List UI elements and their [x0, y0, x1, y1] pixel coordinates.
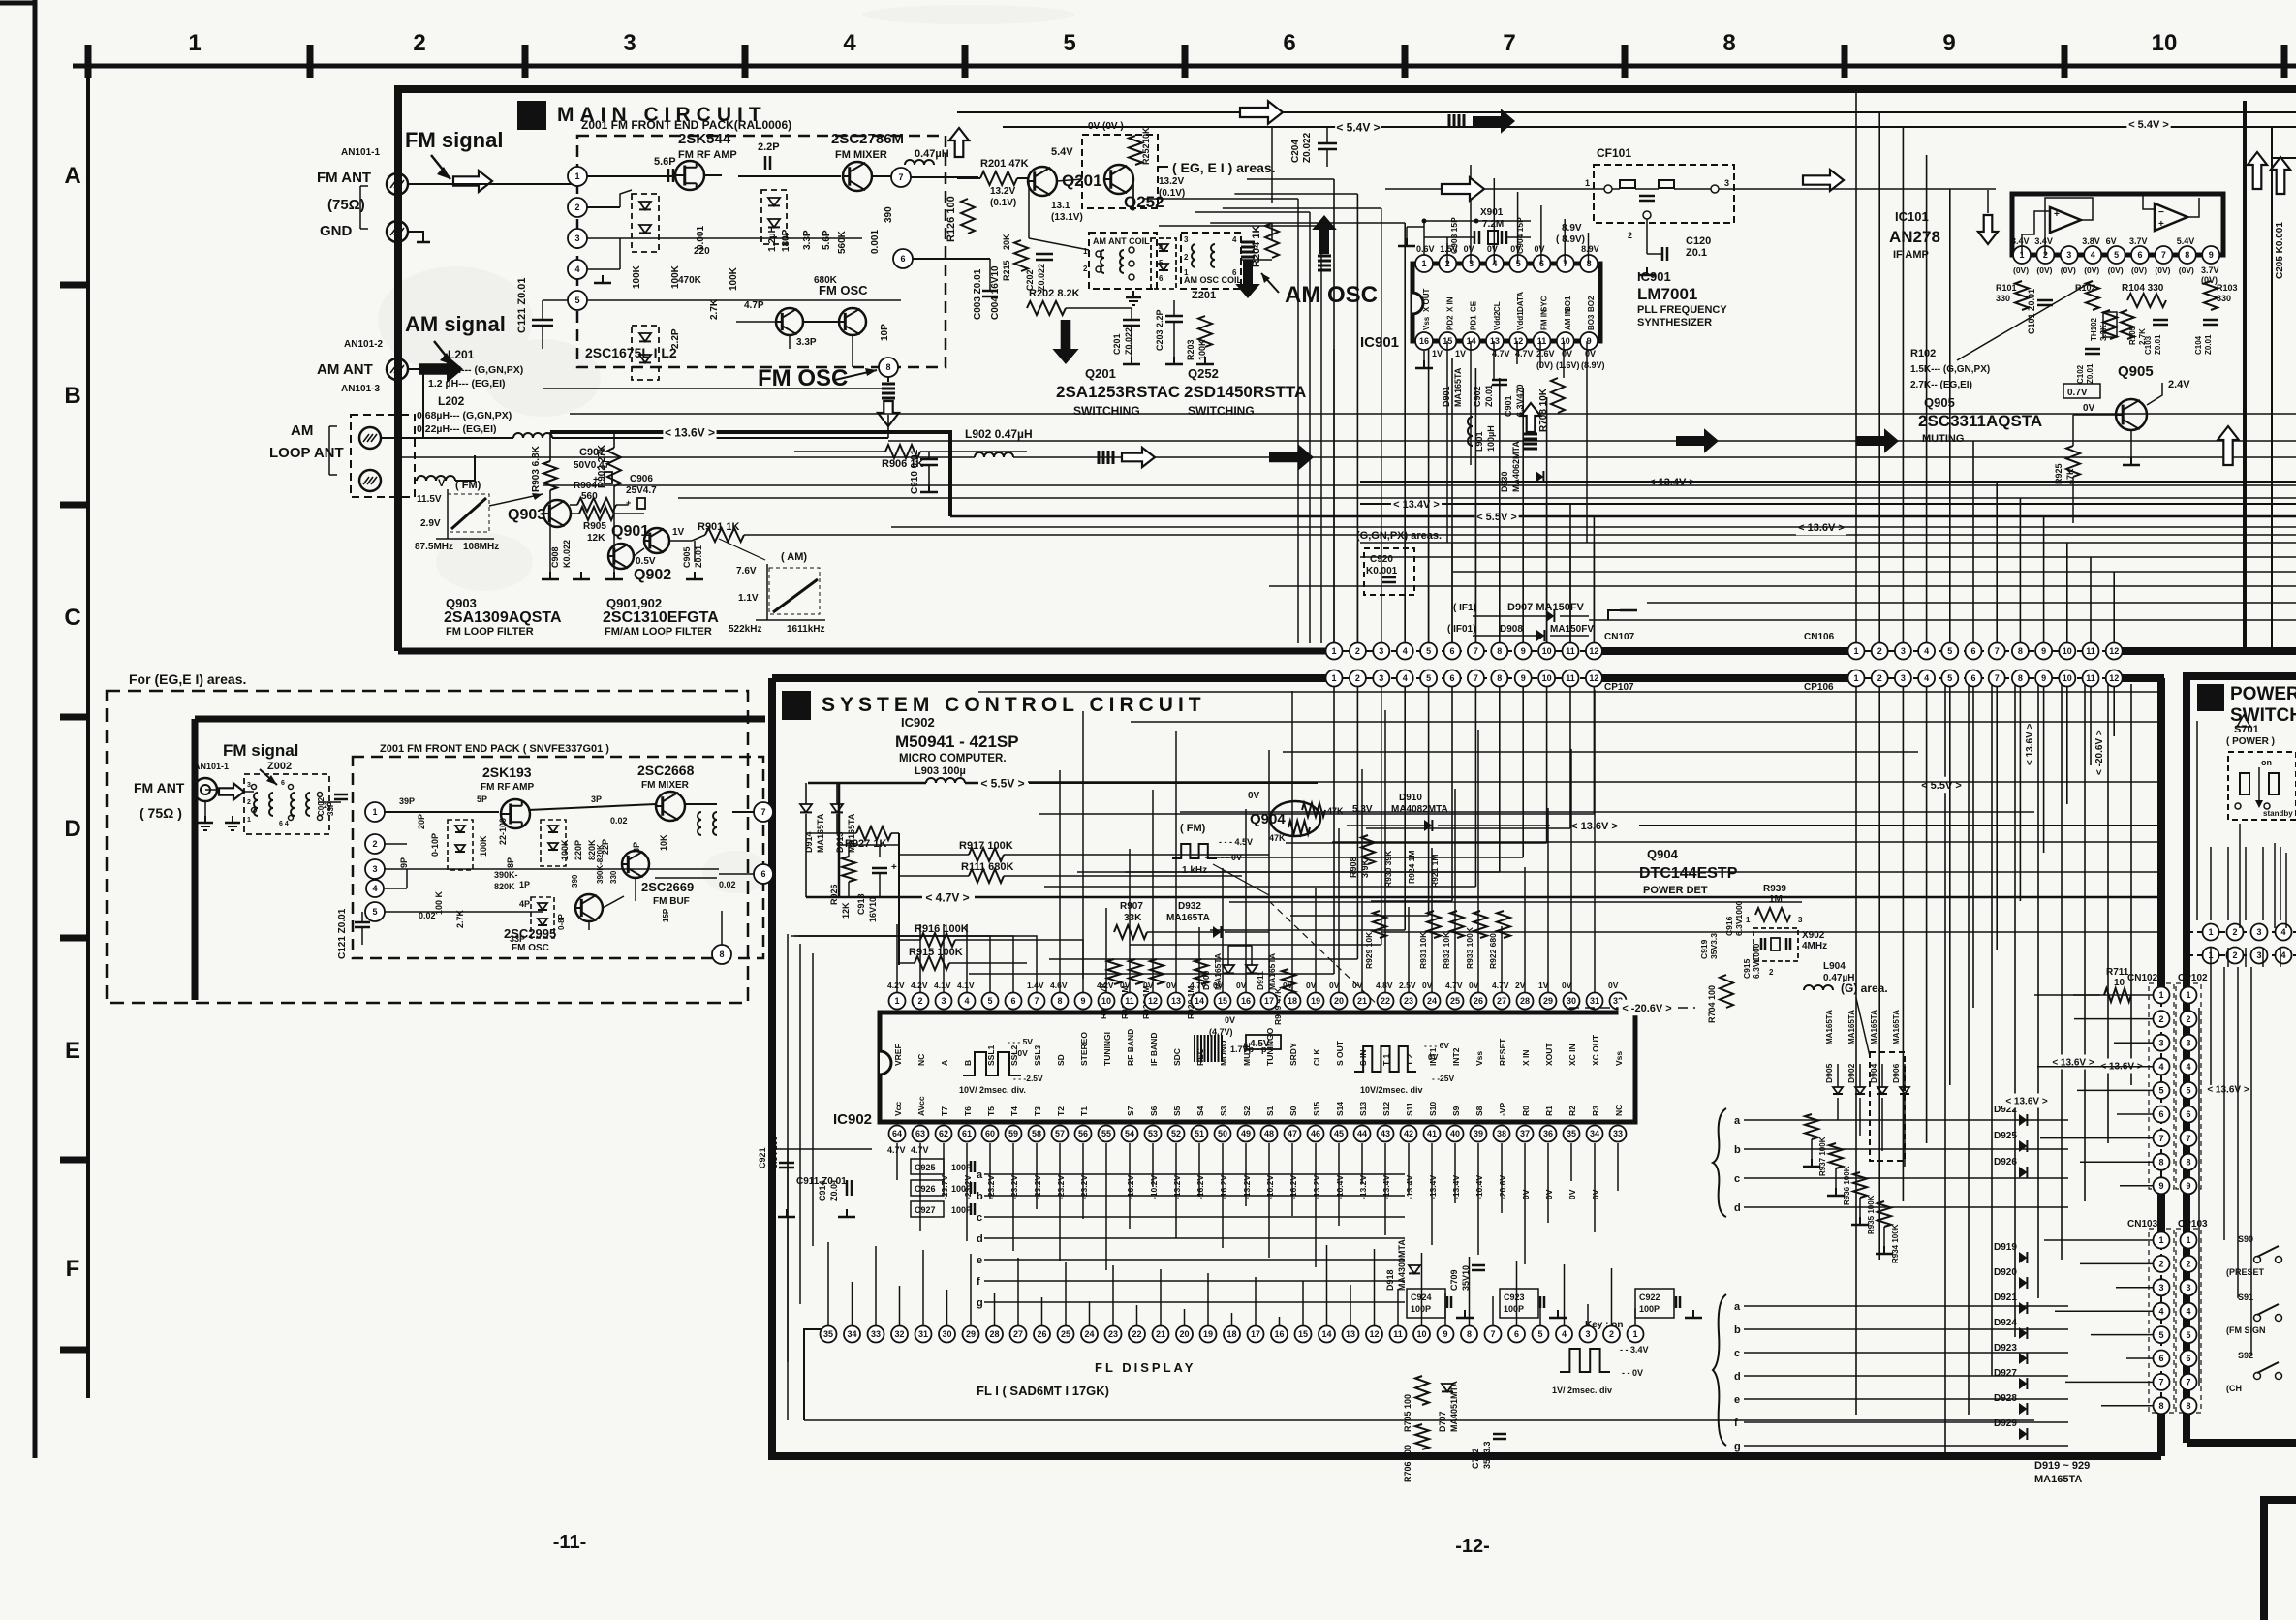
svg-text:2.2P: 2.2P — [758, 141, 780, 153]
svg-text:47K: 47K — [1269, 833, 1286, 843]
svg-text:49: 49 — [1241, 1129, 1251, 1138]
IC902 top pin row — [889, 993, 906, 1010]
IC101 pins — [2013, 246, 2031, 264]
svg-text:680K: 680K — [814, 275, 838, 286]
svg-text:4: 4 — [2186, 1062, 2190, 1072]
svg-text:D902: D902 — [1846, 1063, 1856, 1083]
svg-text:15P: 15P — [662, 908, 670, 922]
svg-text:13: 13 — [1346, 1329, 1355, 1339]
svg-text:5: 5 — [2158, 1330, 2163, 1340]
ruler ticks — [85, 45, 92, 78]
C922 cap — [1635, 1289, 1674, 1318]
svg-text:R102: R102 — [1910, 348, 1936, 359]
svg-text:27: 27 — [1013, 1329, 1023, 1339]
svg-text:TUNINGO: TUNINGO — [1265, 1027, 1275, 1066]
pin8 wire to FM OSC marker — [887, 367, 889, 382]
svg-text:7: 7 — [2158, 1134, 2163, 1143]
svg-text:(0V): (0V) — [2179, 265, 2194, 275]
R925 resistor — [2066, 446, 2080, 477]
svg-text:1: 1 — [2186, 990, 2190, 1000]
svg-text:2SC1310EFGTA: 2SC1310EFGTA — [603, 609, 719, 626]
pack2 pin 5 — [365, 902, 385, 921]
svg-text:R936 100K: R936 100K — [1843, 1166, 1851, 1205]
svg-text:C712: C712 — [1471, 1448, 1480, 1469]
svg-text:< 13.6V >: < 13.6V > — [2025, 723, 2035, 765]
R704 resistor — [1720, 975, 1733, 1008]
svg-text:5: 5 — [1537, 1329, 1542, 1339]
up arrows on rails — [2218, 426, 2239, 465]
svg-text:(0V): (0V) — [1536, 360, 1553, 370]
svg-text:Vdd2: Vdd2 — [1493, 311, 1502, 330]
svg-text:12K: 12K — [587, 533, 605, 544]
hollow up arrow at 990 — [949, 128, 969, 157]
svg-text:11: 11 — [1537, 336, 1547, 346]
svg-text:100µH: 100µH — [1486, 425, 1496, 452]
svg-text:MA165TA: MA165TA — [1453, 367, 1463, 407]
svg-text:13.2V: 13.2V — [1159, 176, 1184, 187]
svg-text:C201: C201 — [1112, 333, 1122, 355]
svg-text:7: 7 — [2186, 1134, 2190, 1143]
svg-text:11: 11 — [2086, 646, 2095, 656]
svg-text:4: 4 — [2280, 927, 2285, 937]
R252 resistor — [1129, 136, 1142, 165]
svg-text:3: 3 — [1585, 1329, 1590, 1339]
C box switches — [2254, 1257, 2261, 1263]
svg-text:7: 7 — [898, 172, 903, 182]
svg-text:16V10: 16V10 — [868, 897, 878, 922]
svg-text:AM IN: AM IN — [1564, 308, 1572, 330]
svg-text:X IN: X IN — [1445, 296, 1454, 312]
solid arrow right on 472 — [1269, 444, 1314, 470]
svg-text:d: d — [1734, 1202, 1741, 1214]
svg-text:9: 9 — [2209, 250, 2214, 260]
svg-text:D908: D908 — [1500, 624, 1523, 635]
R204 resistor — [1265, 223, 1279, 258]
CN107 riser wires — [1333, 179, 1335, 643]
svg-text:4: 4 — [2158, 1062, 2163, 1072]
svg-text:2: 2 — [247, 799, 251, 806]
C924 cap — [1407, 1289, 1445, 1318]
svg-text:1: 1 — [1331, 673, 1336, 683]
svg-text:RF BAND: RF BAND — [1126, 1029, 1135, 1066]
svg-text:SSL1: SSL1 — [986, 1044, 996, 1066]
svg-text:R935 100K: R935 100K — [1867, 1195, 1876, 1234]
svg-text:-VP: -VP — [1498, 1103, 1507, 1117]
svg-text:1: 1 — [2158, 1235, 2163, 1245]
svg-text:3P: 3P — [591, 794, 602, 804]
svg-text:8: 8 — [2186, 1157, 2190, 1167]
svg-text:2SA1309AQSTA: 2SA1309AQSTA — [444, 609, 562, 626]
svg-text:C901: C901 — [1504, 395, 1513, 417]
page corner mark — [0, 1, 33, 6]
R910 R919 R923 R920 resistors — [1107, 959, 1121, 984]
svg-text:5: 5 — [987, 996, 992, 1006]
svg-text:6: 6 — [1283, 30, 1295, 56]
svg-text:9: 9 — [2186, 1181, 2190, 1191]
svg-text:T6: T6 — [963, 1106, 973, 1116]
svg-text:XOUT: XOUT — [1544, 1043, 1554, 1066]
svg-text:0.02: 0.02 — [610, 816, 628, 826]
svg-text:17: 17 — [1264, 996, 1274, 1006]
svg-text:2: 2 — [1609, 1329, 1614, 1339]
svg-text:4.7V: 4.7V — [1515, 349, 1534, 358]
svg-text:56: 56 — [1078, 1129, 1088, 1138]
svg-text:CP102: CP102 — [2178, 973, 2208, 983]
svg-text:PLL FREQUENCY: PLL FREQUENCY — [1637, 304, 1727, 316]
svg-text:2: 2 — [2186, 1260, 2190, 1269]
R103 resistor — [2204, 281, 2218, 310]
R705 R706 resistors — [1415, 1376, 1429, 1405]
svg-text:V: V — [438, 478, 446, 489]
svg-text:108MHz: 108MHz — [463, 542, 499, 552]
svg-text:5: 5 — [1063, 30, 1075, 56]
IC901 LM7001 body — [1412, 264, 1600, 341]
svg-text:Z201: Z201 — [1192, 290, 1216, 301]
svg-text:D923: D923 — [1994, 1343, 2017, 1354]
svg-text:(FM SIGN: (FM SIGN — [2226, 1325, 2266, 1335]
svg-text:S IN: S IN — [1358, 1049, 1368, 1066]
svg-text:MONO: MONO — [1219, 1040, 1228, 1066]
pack2 pin 2 — [365, 834, 385, 854]
svg-text:3: 3 — [372, 864, 377, 874]
svg-text:35: 35 — [823, 1329, 833, 1339]
svg-text:100P: 100P — [1411, 1304, 1431, 1314]
svg-text:36: 36 — [1543, 1129, 1553, 1138]
svg-text:XC OUT: XC OUT — [1591, 1034, 1600, 1066]
system control board B border — [772, 674, 1328, 682]
svg-text:3: 3 — [574, 234, 579, 243]
IC901 pins bottom — [1415, 332, 1433, 350]
svg-text:IC902: IC902 — [901, 715, 935, 730]
svg-text:63: 63 — [915, 1129, 925, 1138]
FM signal arrow — [431, 155, 450, 179]
B left vertical wires — [774, 924, 776, 1420]
IC902 bottom pin row — [889, 1126, 906, 1142]
svg-text:FM MIXER: FM MIXER — [641, 780, 690, 791]
svg-text:4.1V: 4.1V — [934, 981, 951, 990]
svg-text:( POWER ): ( POWER ) — [2226, 736, 2275, 747]
svg-text:R202 8.2K: R202 8.2K — [1029, 288, 1080, 299]
svg-text:CN102: CN102 — [2127, 973, 2158, 983]
svg-text:38: 38 — [1497, 1129, 1506, 1138]
svg-text:Vdd1: Vdd1 — [1516, 311, 1525, 330]
svg-text:TH102: TH102 — [2090, 317, 2098, 341]
svg-text:SYSTEM CONTROL CIRCUIT: SYSTEM CONTROL CIRCUIT — [822, 694, 1206, 716]
svg-text:S2: S2 — [1242, 1106, 1252, 1116]
svg-text:R103: R103 — [2217, 283, 2238, 293]
svg-text:C002: C002 — [317, 796, 326, 816]
svg-text:< 4.7V >: < 4.7V > — [925, 890, 969, 904]
svg-text:a: a — [977, 1169, 983, 1181]
svg-text:C: C — [2204, 688, 2218, 709]
svg-text:7: 7 — [1034, 996, 1039, 1006]
svg-text:47: 47 — [1288, 1129, 1297, 1138]
svg-text:( FM): ( FM) — [1180, 823, 1206, 834]
ruler top line — [73, 64, 2296, 69]
svg-text:100P: 100P — [951, 1184, 972, 1194]
svg-text:-13.4V: -13.4V — [1405, 1175, 1414, 1199]
svg-text:C120: C120 — [1686, 235, 1711, 247]
svg-text:22-100: 22-100 — [498, 818, 508, 845]
svg-text:5.4V: 5.4V — [2177, 236, 2195, 246]
svg-text:4.7V: 4.7V — [1445, 981, 1463, 990]
svg-text:15: 15 — [1298, 1329, 1308, 1339]
X902 crystal — [1753, 928, 1798, 961]
svg-text:- -25V: - -25V — [1432, 1074, 1454, 1083]
svg-text:S4: S4 — [1195, 1106, 1205, 1116]
svg-text:Z002: Z002 — [267, 761, 292, 772]
svg-text:3: 3 — [941, 996, 946, 1006]
svg-text:3: 3 — [1901, 673, 1906, 683]
svg-text:g: g — [977, 1297, 983, 1309]
antenna feed wire — [408, 183, 577, 185]
svg-text:C908: C908 — [550, 546, 560, 568]
C box connector row 1-4 lower — [2187, 954, 2296, 956]
svg-text:4: 4 — [1232, 235, 1237, 244]
svg-text:C919: C919 — [1699, 939, 1709, 959]
svg-text:0V: 0V — [1521, 1189, 1531, 1199]
CN102 feeder wires — [2034, 994, 2153, 996]
svg-text:6: 6 — [2137, 250, 2142, 260]
svg-text:46: 46 — [1311, 1129, 1320, 1138]
svg-text:4: 4 — [964, 996, 969, 1006]
svg-text:RESET: RESET — [1498, 1038, 1507, 1066]
IC901 pins top — [1415, 255, 1433, 272]
svg-text:0.68µH--- (G,GN,PX): 0.68µH--- (G,GN,PX) — [428, 364, 523, 376]
svg-text:standby: standby — [2263, 809, 2293, 818]
svg-text:SWITCHING: SWITCHING — [1073, 404, 1140, 418]
svg-text:5: 5 — [2186, 1330, 2190, 1340]
svg-text:87.5MHz: 87.5MHz — [415, 542, 453, 552]
section label B — [782, 691, 811, 720]
svg-text:0.6V: 0.6V — [1416, 244, 1435, 254]
svg-text:R905: R905 — [583, 521, 606, 532]
svg-text:(0V): (0V) — [2061, 265, 2076, 275]
svg-text:29: 29 — [1543, 996, 1553, 1006]
C923 cap — [1500, 1289, 1538, 1318]
TH102 thermistor — [2103, 310, 2117, 339]
svg-text:GND: GND — [320, 223, 353, 239]
svg-text:C921: C921 — [758, 1147, 767, 1168]
svg-text:10: 10 — [1416, 1329, 1426, 1339]
svg-text:C915: C915 — [1742, 958, 1752, 979]
svg-text:( 75Ω ): ( 75Ω ) — [140, 805, 182, 821]
svg-text:100P: 100P — [951, 1163, 972, 1172]
svg-text:15: 15 — [1218, 996, 1227, 1006]
svg-text:(0V): (0V) — [2108, 265, 2124, 275]
solid arrow down near coil — [1235, 260, 1260, 298]
svg-text:0V: 0V — [1120, 981, 1131, 990]
svg-text:14: 14 — [1195, 996, 1204, 1006]
svg-text:T 1: T 1 — [1381, 1053, 1391, 1066]
svg-text:FM ANT: FM ANT — [317, 170, 371, 186]
svg-text:33K: 33K — [1124, 913, 1142, 923]
svg-text:2SC2786M: 2SC2786M — [831, 131, 904, 147]
svg-text:S11: S11 — [1405, 1102, 1414, 1116]
svg-text:0V: 0V — [1464, 244, 1474, 254]
svg-text:8: 8 — [2185, 250, 2189, 260]
svg-text:MA4062MTA: MA4062MTA — [1511, 441, 1521, 492]
pack1 pin 8 — [879, 358, 898, 377]
svg-text:T7: T7 — [940, 1106, 949, 1116]
connector CN106 — [1850, 650, 2120, 652]
svg-text:- - - 4.5V: - - - 4.5V — [1219, 837, 1253, 847]
svg-text:C916: C916 — [1724, 916, 1734, 936]
svg-text:6: 6 — [281, 780, 285, 787]
pack2 varactor box 2 — [541, 820, 566, 866]
svg-text:4: 4 — [574, 265, 579, 274]
G area dashed box — [1870, 1052, 1905, 1161]
svg-text:( 8.9V): ( 8.9V) — [1556, 234, 1585, 245]
svg-text:0V: 0V — [1143, 981, 1154, 990]
svg-text:Z0.01: Z0.01 — [829, 1179, 839, 1201]
svg-text:-10.4V: -10.4V — [1474, 1175, 1484, 1199]
hollow down arrow to IC101 — [1978, 215, 1998, 244]
svg-text:9: 9 — [2041, 673, 2046, 683]
R215 C202 — [1014, 240, 1028, 271]
svg-text:Q903: Q903 — [508, 507, 545, 523]
svg-text:DTC144ESTP: DTC144ESTP — [1639, 865, 1738, 882]
muting wires — [2073, 414, 2116, 416]
svg-text:2SC3311AQSTA: 2SC3311AQSTA — [1918, 412, 2042, 430]
svg-text:L902 0.47µH: L902 0.47µH — [965, 427, 1033, 441]
EGEI long wires — [205, 789, 219, 791]
svg-text:LM7001: LM7001 — [1637, 285, 1697, 303]
switch wires — [1028, 181, 1030, 238]
boxed 4.5V label — [1246, 1035, 1281, 1049]
svg-text:CE: CE — [1470, 300, 1478, 312]
svg-text:4: 4 — [1924, 646, 1929, 656]
CN107 riser jogs — [1247, 178, 1334, 180]
svg-text:SRDY: SRDY — [1288, 1043, 1298, 1066]
EG EI inner board border — [195, 716, 765, 723]
svg-text:D707: D707 — [1438, 1411, 1447, 1432]
svg-text:R926: R926 — [829, 884, 839, 905]
svg-text:5.6P: 5.6P — [654, 156, 676, 168]
svg-text:C903 15P: C903 15P — [1449, 217, 1459, 254]
svg-text:-20.6V: -20.6V — [1498, 1175, 1507, 1199]
svg-text:c: c — [1734, 1173, 1740, 1185]
svg-text:(0V): (0V) — [2155, 265, 2170, 275]
pack1 pin 4 — [568, 260, 587, 279]
svg-text:S15: S15 — [1312, 1102, 1321, 1116]
svg-text:4.2V: 4.2V — [1097, 981, 1114, 990]
svg-text:- - - 5V: - - - 5V — [1008, 1037, 1033, 1046]
13.6V lower bus — [1360, 542, 2296, 544]
svg-text:CF101: CF101 — [1597, 146, 1631, 160]
FL1 pin row — [821, 1326, 837, 1343]
svg-text:+: + — [2054, 209, 2060, 220]
loop filter wires — [571, 513, 579, 514]
svg-text:1611kHz: 1611kHz — [787, 624, 824, 635]
svg-text:31: 31 — [1590, 996, 1599, 1006]
svg-text:6: 6 — [2158, 1109, 2163, 1119]
svg-text:AN101-1: AN101-1 — [341, 147, 380, 158]
svg-text:8: 8 — [719, 950, 724, 959]
svg-text:T2: T2 — [1056, 1106, 1066, 1116]
svg-text:FM ANT: FM ANT — [134, 780, 185, 795]
svg-text:(75Ω): (75Ω) — [327, 197, 365, 213]
svg-text:1V/ 2msec. div: 1V/ 2msec. div — [1552, 1386, 1612, 1395]
svg-text:1: 1 — [1853, 673, 1858, 683]
svg-text:1V: 1V — [1455, 349, 1466, 358]
svg-text:4.8V: 4.8V — [1376, 981, 1393, 990]
svg-text:1: 1 — [2208, 927, 2213, 937]
R905 resistor — [579, 507, 614, 520]
svg-text:53: 53 — [1148, 1129, 1158, 1138]
svg-text:1: 1 — [1184, 268, 1189, 277]
svg-text:T 2: T 2 — [1405, 1053, 1414, 1066]
svg-text:BO3: BO3 — [1587, 314, 1596, 330]
svg-text:0V: 0V — [1166, 981, 1177, 990]
power switch board C border — [2187, 676, 2296, 1443]
svg-text:10P: 10P — [880, 324, 890, 341]
svg-text:-11-: -11- — [553, 1532, 586, 1553]
13.4V bus — [1360, 503, 2296, 505]
svg-text:2: 2 — [2232, 950, 2237, 960]
svg-text:4: 4 — [843, 30, 856, 56]
C box connector row 1-4 upper — [2187, 931, 2296, 933]
svg-text:4.7V: 4.7V — [1492, 981, 1509, 990]
svg-text:390: 390 — [884, 206, 894, 223]
svg-text:+: + — [891, 862, 897, 873]
svg-text:AM ANT COIL: AM ANT COIL — [1093, 236, 1150, 246]
svg-text:C904 15P: C904 15P — [1515, 217, 1525, 254]
svg-text:M50941 - 421SP: M50941 - 421SP — [895, 732, 1019, 751]
svg-text:D924: D924 — [1994, 1318, 2017, 1328]
svg-text:35: 35 — [1567, 1129, 1576, 1138]
R708 resistor — [1551, 378, 1565, 413]
svg-text:D906: D906 — [1891, 1063, 1901, 1083]
pack2 varactor box 1 — [448, 820, 473, 870]
svg-text:Z001 FM FRONT END PACK(RAL0006: Z001 FM FRONT END PACK(RAL0006) — [581, 118, 791, 132]
svg-text:24: 24 — [1084, 1329, 1094, 1339]
svg-text:31: 31 — [918, 1329, 928, 1339]
lower A rails — [1647, 602, 2296, 604]
svg-text:< 13.6V >: < 13.6V > — [2207, 1085, 2249, 1096]
C103 cap — [2153, 319, 2168, 322]
svg-text:SSL3: SSL3 — [1033, 1044, 1042, 1066]
svg-text:13.2V: 13.2V — [990, 186, 1015, 197]
svg-text:1: 1 — [1421, 259, 1426, 268]
svg-text:-13.4V: -13.4V — [1451, 1175, 1461, 1199]
svg-text:10K: 10K — [1141, 127, 1151, 143]
svg-text:< 13.6V >: < 13.6V > — [2005, 1097, 2048, 1107]
svg-text:3: 3 — [1798, 916, 1803, 924]
svg-text:37: 37 — [1520, 1129, 1530, 1138]
svg-text:2: 2 — [574, 202, 579, 212]
svg-text:12: 12 — [1589, 673, 1598, 683]
svg-text:6.3V1000: 6.3V1000 — [1752, 943, 1761, 979]
Z001 FM front end pack RAL0006 dashed box — [577, 136, 946, 367]
EG EI areas dashed box — [107, 691, 748, 1003]
svg-text:1: 1 — [1331, 646, 1336, 656]
svg-text:(G) area.: (G) area. — [1841, 981, 1888, 995]
svg-text:S8: S8 — [1474, 1106, 1484, 1116]
svg-text:CN103: CN103 — [2127, 1219, 2158, 1230]
svg-text:MA150FV: MA150FV — [1550, 624, 1594, 635]
CN106 riser wires — [1855, 93, 1857, 643]
R105 resistor — [2121, 310, 2134, 339]
svg-text:8: 8 — [2158, 1157, 2163, 1167]
svg-text:13: 13 — [1490, 336, 1500, 346]
svg-text:3: 3 — [2066, 250, 2071, 260]
svg-text:( IF1): ( IF1) — [1453, 603, 1476, 613]
svg-text:3.7V: 3.7V — [2129, 236, 2148, 246]
svg-text:MA165TA: MA165TA — [1892, 1010, 1901, 1044]
svg-text:AM signal: AM signal — [405, 312, 506, 336]
svg-text:VREF: VREF — [893, 1044, 903, 1066]
